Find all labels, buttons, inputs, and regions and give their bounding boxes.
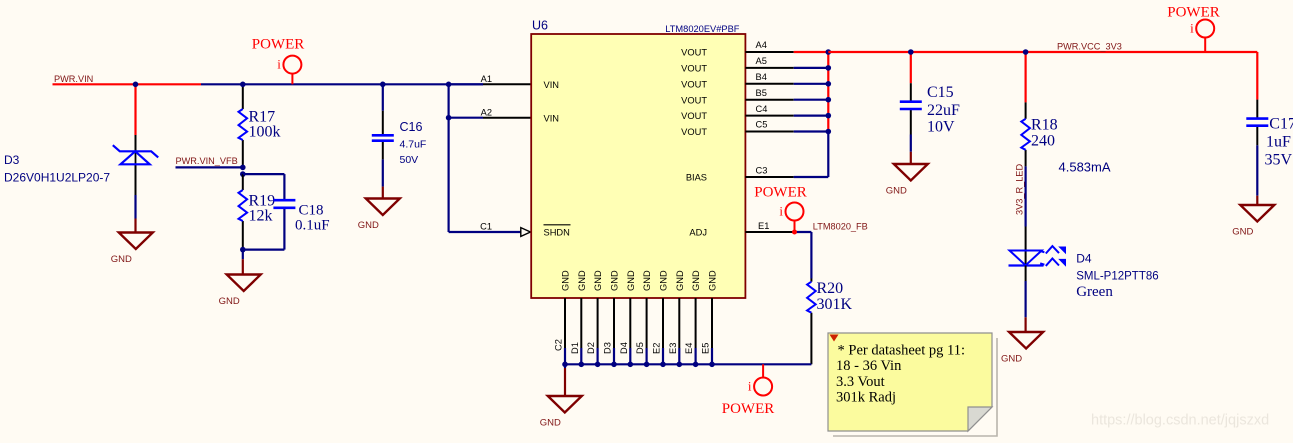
wire D3 branch [134, 84, 136, 232]
junction dot bus E4 [693, 362, 699, 368]
wire R18 top red [1024, 52, 1026, 102]
svg-text:GND: GND [111, 254, 132, 265]
power port POWER (input rail) [252, 37, 305, 85]
wire PWR.VIN rail navy segment [201, 83, 483, 85]
pin GND D2 [597, 298, 599, 348]
svg-text:GND: GND [626, 270, 636, 291]
svg-text:VOUT: VOUT [681, 48, 707, 58]
capacitor C16 [372, 134, 394, 137]
wire vout bus navy vertical to C3 [794, 132, 829, 178]
svg-text:GND: GND [1001, 354, 1022, 365]
svg-text:35V: 35V [1265, 152, 1293, 169]
wire R17 leads [242, 84, 244, 167]
svg-text:50V: 50V [400, 154, 419, 166]
junction dot vout bus [826, 97, 832, 103]
svg-text:GND: GND [886, 186, 907, 197]
svg-text:301k Radj: 301k Radj [836, 390, 896, 406]
svg-text:E1: E1 [758, 221, 769, 231]
svg-text:D4: D4 [619, 342, 629, 354]
svg-text:i: i [748, 379, 752, 394]
wire bus to gnd [564, 364, 566, 396]
pin A4 [745, 51, 793, 53]
svg-text:GND: GND [659, 270, 669, 291]
svg-text:C4: C4 [756, 104, 768, 114]
svg-text:E2: E2 [652, 343, 662, 354]
junction dot R19 bottom [240, 247, 246, 253]
wire D4 to gnd [1025, 266, 1027, 333]
svg-text:VOUT: VOUT [681, 127, 707, 137]
ground under gnd bus [540, 396, 582, 429]
svg-text:4.583mA: 4.583mA [1059, 160, 1111, 175]
note box (datasheet annotation) [828, 333, 997, 436]
resistor R20 [807, 282, 816, 313]
pin E1 (ADJ) [745, 231, 793, 233]
junction dot bus E5 [709, 362, 715, 368]
pin GND D5 [646, 298, 648, 348]
junction dot bus D3 [611, 362, 617, 368]
svg-text:POWER: POWER [252, 37, 305, 53]
junction dot bus C2 [562, 362, 568, 368]
svg-text:0.1uF: 0.1uF [295, 218, 330, 234]
junction dot bus D2 [595, 362, 601, 368]
junction dot R17 top [240, 82, 246, 88]
resistor R18 [1021, 119, 1030, 150]
svg-text:D4: D4 [1076, 252, 1092, 266]
svg-text:GND: GND [675, 270, 685, 291]
ground under R19 [219, 275, 261, 308]
svg-text:GND: GND [219, 296, 240, 307]
svg-text:GND: GND [540, 418, 561, 429]
pin C3 [745, 176, 793, 178]
svg-text:12k: 12k [249, 208, 273, 225]
svg-text:GND: GND [1232, 227, 1253, 238]
svg-text:GND: GND [358, 220, 379, 231]
junction dot E1 power stem (red) [792, 230, 797, 235]
svg-text:Green: Green [1076, 284, 1113, 300]
capacitor C18 [273, 199, 295, 202]
svg-text:C18: C18 [299, 203, 324, 219]
svg-text:ADJ: ADJ [689, 228, 707, 238]
wire R19 gnd stub [242, 250, 244, 275]
pin C5 [745, 131, 793, 133]
wire PWR.VCC_3V3 rail [828, 51, 1257, 53]
svg-text:i: i [1190, 21, 1194, 36]
ground under C17 [1232, 205, 1274, 238]
wire B4 to bus [794, 83, 829, 85]
svg-text:A4: A4 [756, 40, 767, 50]
junction dot A2 [446, 115, 452, 121]
pin GND E4 [695, 298, 697, 348]
junction dot bus D4 [628, 362, 634, 368]
svg-text:GND: GND [561, 270, 571, 291]
svg-text:GND: GND [610, 270, 620, 291]
junction dot vout bus [826, 65, 832, 71]
svg-text:VOUT: VOUT [681, 111, 707, 121]
svg-text:PWR.VIN: PWR.VIN [54, 74, 93, 84]
svg-text:SHDN: SHDN [544, 228, 570, 238]
pin A1 [483, 83, 531, 85]
capacitor C17 [1246, 117, 1268, 120]
svg-text:22uF: 22uF [927, 102, 960, 119]
svg-text:3V3_R_LED: 3V3_R_LED [1015, 164, 1025, 215]
svg-text:D26V0H1U2LP20-7: D26V0H1U2LP20-7 [4, 171, 110, 185]
wire A5 to bus [794, 67, 829, 69]
wire A1 branch vertical [448, 84, 450, 232]
svg-text:GND: GND [593, 270, 603, 291]
junction dot C16 top [380, 82, 386, 88]
svg-text:BIAS: BIAS [686, 173, 707, 183]
wire C1 to pin [449, 231, 521, 233]
wire vout bus red vertical [827, 52, 829, 132]
SHDN input arrow [521, 228, 531, 237]
wire GND pin D3 to bus [613, 348, 615, 364]
wire GND pin D2 to bus [596, 348, 598, 364]
resistor R17 [239, 109, 248, 140]
junction dot bus D5 [644, 362, 650, 368]
wire R20 leads [810, 279, 812, 365]
svg-text:B4: B4 [756, 72, 767, 82]
svg-text:VIN: VIN [544, 114, 560, 124]
wire A2 to pin [449, 117, 483, 119]
wire C17 branch [1256, 52, 1258, 205]
svg-text:E4: E4 [684, 343, 694, 354]
svg-text:C16: C16 [400, 120, 423, 134]
wire 3V3_R_LED [1024, 166, 1026, 265]
pin A2 [483, 117, 531, 119]
wire C16 branch [382, 84, 384, 198]
wire R18 leads [1025, 102, 1027, 166]
svg-text:VOUT: VOUT [681, 64, 707, 74]
wire GND pin E3 to bus [678, 348, 680, 364]
svg-text:VOUT: VOUT [681, 95, 707, 105]
wire GND pin E5 to bus [711, 348, 713, 364]
svg-text:100k: 100k [249, 124, 281, 141]
svg-text:10V: 10V [927, 119, 955, 136]
junction dot vout bus [826, 49, 832, 55]
svg-text:LTM8020_FB: LTM8020_FB [813, 222, 868, 232]
wire A4 red segment [794, 51, 829, 53]
junction dot bus E3 [677, 362, 683, 368]
resistor R19 [239, 190, 248, 221]
pin GND D4 [629, 298, 631, 348]
op-amp U6 body (LTM8020 module) [531, 34, 745, 298]
svg-text:18 - 36 Vin: 18 - 36 Vin [836, 358, 902, 374]
svg-text:C1: C1 [480, 222, 492, 232]
svg-text:POWER: POWER [722, 401, 775, 417]
svg-text:SML-P12PTT86: SML-P12PTT86 [1076, 270, 1158, 282]
ground under D4 [1001, 332, 1043, 365]
svg-text:C5: C5 [756, 120, 768, 130]
ground under C16 [358, 199, 400, 232]
pin C4 [745, 115, 793, 117]
junction dot VFB branch [240, 171, 246, 177]
svg-text:D2: D2 [586, 342, 596, 354]
svg-text:A1: A1 [481, 74, 492, 84]
wire GND pin D4 to bus [629, 348, 631, 364]
wire E1 to R20 [794, 232, 812, 279]
pin GND E2 [662, 298, 664, 348]
svg-text:VOUT: VOUT [681, 79, 707, 89]
junction dot vout bus [826, 81, 832, 87]
wire PWR.VIN rail red segment [53, 83, 202, 85]
diode D4 LED [1009, 246, 1067, 267]
svg-text:POWER: POWER [1167, 5, 1220, 21]
wire C15 branch [910, 52, 912, 164]
svg-text:E5: E5 [701, 343, 711, 354]
svg-text:3.3 Vout: 3.3 Vout [836, 374, 885, 390]
svg-text:https://blog.csdn.net/jqjszxd: https://blog.csdn.net/jqjszxd [1091, 413, 1269, 429]
svg-text:GND: GND [577, 270, 587, 291]
wire PWR.VIN_VFB [176, 166, 243, 168]
diode D3 (zener D26V0H1U2LP20-7) [113, 145, 158, 164]
svg-text:GND: GND [642, 270, 652, 291]
wire C4 to bus [794, 114, 829, 116]
svg-text:C2: C2 [554, 339, 564, 351]
svg-text:E3: E3 [668, 343, 678, 354]
wire GND pin D1 to bus [580, 348, 582, 364]
wire B5 to bus [794, 99, 829, 101]
svg-text:301K: 301K [817, 296, 853, 313]
capacitor C15 [900, 100, 922, 103]
junction dot D3 branch [133, 82, 139, 88]
pin GND C2 [564, 298, 566, 348]
svg-text:A5: A5 [756, 56, 767, 66]
pin GND D1 [580, 298, 582, 348]
wire GND pin E2 to bus [662, 348, 664, 364]
wire gnd bus [565, 363, 811, 365]
svg-text:PWR.VIN_VFB: PWR.VIN_VFB [176, 156, 238, 166]
svg-text:POWER: POWER [754, 185, 807, 201]
svg-text:i: i [779, 204, 783, 219]
svg-text:VIN: VIN [544, 80, 560, 90]
ground under D3 [111, 233, 153, 266]
power port POWER (bottom) [722, 364, 775, 417]
svg-text:D5: D5 [635, 342, 645, 354]
power port POWER (top right) [1167, 5, 1220, 53]
svg-text:C15: C15 [927, 84, 954, 101]
junction dot VFB [240, 165, 246, 171]
wire A1 to pin [449, 83, 483, 85]
wire GND pin D5 to bus [645, 348, 647, 364]
wire GND pin C2 to bus [564, 348, 566, 364]
svg-text:GND: GND [708, 270, 718, 291]
svg-text:240: 240 [1031, 133, 1055, 150]
pin A5 [745, 67, 793, 69]
pin GND D3 [613, 298, 615, 348]
svg-text:PWR.VCC_3V3: PWR.VCC_3V3 [1057, 42, 1122, 52]
ground under C15 [886, 164, 928, 197]
svg-text:R20: R20 [817, 280, 844, 297]
svg-text:LTM8020EV#PBF: LTM8020EV#PBF [665, 24, 740, 34]
power port POWER (adj) [754, 185, 807, 233]
svg-text:D3: D3 [603, 342, 613, 354]
svg-text:* Per datasheet pg 11:: * Per datasheet pg 11: [838, 343, 966, 359]
svg-text:D1: D1 [570, 342, 580, 354]
svg-text:1uF: 1uF [1266, 134, 1291, 151]
pin GND E3 [678, 298, 680, 348]
svg-text:GND: GND [691, 270, 701, 291]
svg-text:U6: U6 [532, 19, 548, 33]
junction dot A1 [446, 82, 452, 88]
svg-text:i: i [277, 57, 281, 72]
svg-text:C3: C3 [756, 165, 768, 175]
wire C18 branch [243, 174, 285, 250]
wire C5 to bus [794, 130, 829, 132]
svg-text:4.7uF: 4.7uF [400, 138, 427, 150]
svg-text:D3: D3 [4, 153, 20, 167]
pin B4 [745, 83, 793, 85]
pin GND E5 [711, 298, 713, 348]
junction dot bus E2 [660, 362, 666, 368]
svg-text:B5: B5 [756, 88, 767, 98]
svg-text:R18: R18 [1031, 117, 1058, 134]
junction dot bus D1 [579, 362, 585, 368]
junction dot vout bus [826, 113, 832, 119]
svg-text:A2: A2 [481, 107, 492, 117]
wire R19 leads [242, 174, 244, 250]
svg-text:C17: C17 [1269, 116, 1293, 133]
wire GND pin E4 to bus [694, 348, 696, 364]
pin B5 [745, 99, 793, 101]
junction dot vout bus [826, 129, 832, 135]
junction dot R18 [1023, 49, 1029, 55]
junction dot C15 [908, 49, 914, 55]
